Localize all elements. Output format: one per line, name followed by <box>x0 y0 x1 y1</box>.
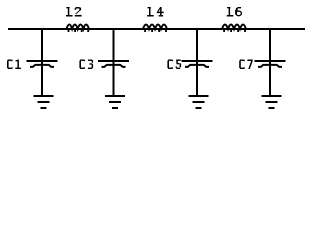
wire: C1 shunt branch vertical <box>41 30 43 95</box>
capacitor C3 <box>98 60 129 67</box>
capacitor C5 <box>182 60 213 67</box>
ground (C7 branch) <box>262 95 282 109</box>
label L2 <box>66 7 82 17</box>
ground (C3 branch) <box>105 95 125 109</box>
ground (C5 branch) <box>189 95 209 109</box>
label C1 <box>7 60 21 70</box>
label C5 <box>167 60 181 70</box>
inductor L4 <box>143 25 167 33</box>
wire: C7 shunt branch vertical <box>269 30 271 95</box>
capacitor C1 <box>27 60 58 67</box>
label C3 <box>79 60 93 70</box>
wire: top bus from input to output <box>8 28 305 30</box>
capacitor C7 <box>255 60 286 67</box>
label C7 <box>239 60 253 70</box>
wire: C5 shunt branch vertical <box>196 30 198 95</box>
wire: C3 shunt branch vertical <box>113 30 115 95</box>
label L4 <box>147 7 163 17</box>
inductor L2 <box>67 25 90 33</box>
ground (C1 branch) <box>34 95 54 109</box>
inductor L6 <box>222 25 246 33</box>
label L6 <box>227 7 242 17</box>
